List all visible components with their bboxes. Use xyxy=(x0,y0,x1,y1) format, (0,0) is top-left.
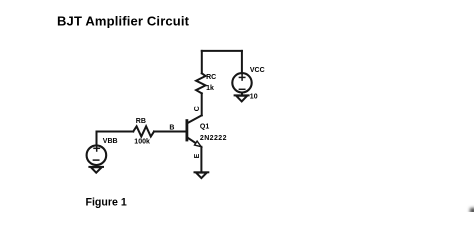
svg-text:VCC: VCC xyxy=(250,67,265,74)
wire VCC drop xyxy=(241,51,243,73)
transistor Q1 emitter arrowhead xyxy=(195,141,202,147)
voltage source VCC circle xyxy=(232,73,251,92)
svg-text:2N2222: 2N2222 xyxy=(200,135,227,142)
voltage source VCC plus sign xyxy=(239,75,244,80)
wire emitter vertical xyxy=(200,147,202,171)
voltage source VBB minus sign xyxy=(93,159,98,161)
svg-text:100k: 100k xyxy=(134,138,150,145)
ground at VBB xyxy=(89,167,103,173)
svg-text:E: E xyxy=(194,153,201,158)
svg-text:RC: RC xyxy=(206,74,216,81)
transistor Q1 emitter diagonal xyxy=(187,137,196,143)
voltage source VBB circle xyxy=(87,145,107,165)
resistor RC xyxy=(196,73,205,93)
transistor Q1 collector diagonal xyxy=(187,115,202,123)
svg-text:C: C xyxy=(194,106,201,111)
svg-text:VBB: VBB xyxy=(103,138,118,145)
wire collector vertical xyxy=(201,93,203,115)
resistor RB xyxy=(133,126,154,136)
ground at emitter xyxy=(195,172,209,178)
wire left drop to RC top xyxy=(201,51,203,73)
svg-text:RB: RB xyxy=(136,118,146,125)
voltage source VBB plus sign xyxy=(94,146,99,151)
svg-text:Figure 1: Figure 1 xyxy=(86,197,127,209)
wire base xyxy=(154,131,186,133)
svg-text:B: B xyxy=(169,124,174,131)
corner smudge xyxy=(470,208,474,214)
wire VBB riser xyxy=(97,132,134,146)
svg-text:BJT Amplifier Circuit: BJT Amplifier Circuit xyxy=(57,13,190,28)
wire VCC ground stub xyxy=(241,93,243,96)
ground at VCC xyxy=(235,95,249,101)
wire top rail VCC to RC xyxy=(202,50,242,52)
wire VBB ground stub xyxy=(95,165,97,167)
svg-text:10: 10 xyxy=(250,94,258,101)
transistor Q1 base bar xyxy=(185,121,188,140)
svg-text:1k: 1k xyxy=(206,85,214,92)
svg-text:Q1: Q1 xyxy=(200,123,209,130)
voltage source VCC minus sign xyxy=(239,88,244,90)
